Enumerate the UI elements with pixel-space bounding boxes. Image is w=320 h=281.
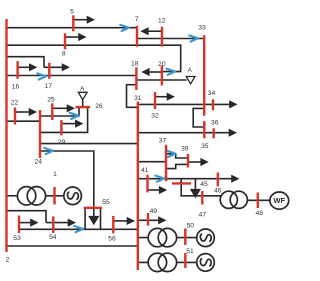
bus 50 [184,229,186,246]
svg-text:51: 51 [186,248,194,255]
load arrow at bus39 [188,161,201,163]
bus 54 [52,216,54,233]
bus 53 [18,216,20,234]
wire bus31-bus41-bus45-bus46 with arrow y178.7 [138,178,232,180]
wire bus2-bus22-bus24 y121 [7,120,41,122]
bus 20 [161,66,163,86]
bus 56 [112,216,114,233]
svg-text:45: 45 [200,181,208,188]
svg-text:49: 49 [150,208,158,215]
load arrow at bus8 [65,36,79,38]
blue arrow on line to bus33 [189,35,198,41]
svg-text:1: 1 [53,171,57,178]
wire bus2-transformer T1 [7,195,19,197]
flow arrow down to transformer 46-48 [194,179,196,190]
svg-text:25: 25 [47,97,55,104]
wire bus24-bus26 right riser [40,108,88,133]
wire bus55 left drop [84,208,86,230]
arrow below bus55 [93,209,95,217]
svg-text:56: 56 [108,236,116,243]
bus 51 [184,253,186,268]
transformer T51 [148,253,166,271]
bus 47 [201,191,203,205]
blue arrow bus16-bus17 [37,73,46,79]
load triangle A right [186,77,195,84]
blue arrow on bus41 line [155,176,164,182]
bus 8 [64,33,66,49]
bus 24 [39,110,41,158]
load arrow at bus54 [46,222,69,224]
bus 35 [203,121,205,138]
svg-text:33: 33 [198,25,206,32]
blue arrow before bus56 [74,226,83,232]
wire bus37-bus39 upper step [166,154,188,158]
wire bus2-bus31 bottom line y246 [7,245,138,247]
bus 34 [212,99,214,110]
transformer T1 [17,187,35,205]
bus 46 [217,173,219,187]
svg-text:46: 46 [214,188,222,195]
wire bus2-bus16-bus17-bus18 line y75.5 [7,75,137,77]
bus 36 [212,128,214,138]
svg-text:39: 39 [181,146,189,153]
svg-text:31: 31 [134,95,142,102]
wire transformer T1-bus1-generator G1 [45,195,64,197]
wire bus31-transformer T51-bus51-generator G51 [138,261,196,263]
load arrow at bus41 [148,189,160,191]
svg-text:53: 53 [13,235,21,242]
bus 33 [203,35,205,115]
svg-text:50: 50 [187,223,195,230]
bus 1 [53,187,55,205]
svg-text:32: 32 [151,113,159,120]
bus 16 [16,61,18,78]
wire bus24-bus25-bus26 with corner [40,108,79,117]
load arrow at bus49 [138,219,159,221]
transformer T46-48 [220,191,237,208]
svg-text:2: 2 [6,257,10,264]
load arrow at bus46 [239,178,241,180]
bus 26 [76,106,91,108]
load arrow at bus29 [61,123,76,125]
wire bus37-bus39 lower step [166,164,188,168]
bus 25 [51,103,53,120]
blue arrow right of bus20 [166,69,175,75]
svg-text:16: 16 [12,84,20,91]
svg-text:34: 34 [208,90,216,97]
flow arrow bus20 to bus18 [149,71,162,73]
wire bus31-bus37 y161.7 [138,161,166,163]
load arrow at bus17 [44,66,63,68]
svg-text:5: 5 [70,9,74,16]
bus 12 [161,27,163,47]
svg-text:37: 37 [159,138,167,145]
wind farm WF [270,192,289,209]
generator G50 [197,229,215,247]
wire riser to bus47 line [181,179,220,196]
load arrow at bus5 [73,19,87,21]
bus 18 [135,67,137,90]
wire bus2-bus8-bus7-bus12-corner-bus20 [7,45,181,71]
bus 2 (left backbone) [5,19,7,252]
svg-text:48: 48 [255,210,263,217]
wire bus18-bus20-triangleA y80 [136,79,186,81]
bus 55 [84,207,102,209]
svg-text:12: 12 [158,18,166,25]
wire bus31-bus32-bus33-bus34 with arrow [138,103,230,105]
svg-text:47: 47 [199,212,207,219]
svg-text:29: 29 [58,139,66,146]
generator G51 [197,254,215,272]
wire bus55 right drop [100,208,102,230]
load triangle A left [78,92,87,99]
blue arrow on line to bus7 [120,25,129,31]
svg-text:24: 24 [34,159,42,166]
transformer T50 [148,228,166,246]
svg-text:22: 22 [11,100,19,107]
bus 49 [147,213,149,226]
wire transformer T46-bus48-WF [246,199,271,201]
blue arrow on bus24-bus55 line [44,148,53,154]
bus 29 [60,120,62,135]
load arrow at bus22 [15,111,30,113]
wire bus2 step to bus17 line [7,57,45,68]
wire bus31-transformer T50-bus50-generator G50 [138,237,196,239]
wire bus33 elbow to bus35 [193,108,204,127]
bus 39 [187,154,189,168]
svg-text:54: 54 [49,234,57,241]
load arrow at bus32 [155,96,168,98]
bus 5 [72,15,74,31]
wire bus24-bus55 with corner [40,151,94,207]
bus 31 (central backbone) [137,102,139,271]
svg-text:41: 41 [141,167,149,174]
wire bus24-bus31 long line y143.6 [40,143,138,145]
bus 22 [14,108,16,125]
bus 45 [172,182,191,184]
svg-text:36: 36 [211,120,219,127]
wire bus53-bus54-bus56-bus31 y229.3 [19,228,138,230]
wire bus2-bus7 top line y28 [7,27,137,29]
svg-text:17: 17 [45,83,53,90]
svg-text:WF: WF [273,196,285,205]
load arrow at bus25 [52,107,67,109]
flow arrow bus56 to bus31 [113,220,127,222]
generator G1 [64,187,82,205]
svg-text:35: 35 [201,143,209,150]
bus 37 [165,145,167,181]
flow arrow bus12 to bus7 [148,30,162,32]
wire bus2 step to bus53-54 line [7,211,47,223]
load arrow at bus53 [19,222,31,224]
svg-text:18: 18 [131,60,139,67]
load arrow at bus16 [18,66,30,68]
bus 48 [257,193,259,209]
svg-text:20: 20 [158,61,166,68]
blue arrow on bus25-bus26 line [70,113,79,119]
bus 41 [146,175,148,193]
svg-text:55: 55 [102,199,110,206]
wire bus7-bus12-bus33 y38.5 [137,38,204,40]
bus 32 [154,92,156,109]
wire triangleA2 stem [82,100,84,107]
svg-text:26: 26 [95,103,103,110]
wire bus18 elbow to bus31 [127,85,138,108]
wire bus31-bus35-bus36 with arrow [138,132,230,134]
svg-text:8: 8 [62,51,66,58]
bus 7 [136,26,138,47]
svg-text:7: 7 [135,16,139,23]
bus 17 [48,63,50,79]
blue arrow at bus37 [167,151,176,157]
